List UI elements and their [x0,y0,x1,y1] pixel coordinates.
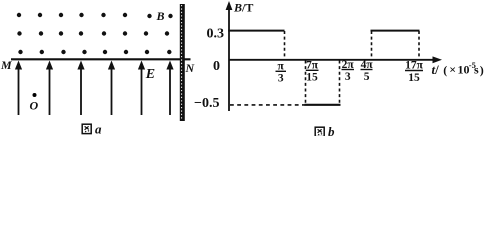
pulse 1 falling dashed edge [284,31,286,59]
tick label 4pi/5 [361,59,374,83]
pulse 3 right dashed edge [418,31,420,59]
svg-text:a: a [95,122,102,137]
svg-text:): ) [480,63,484,77]
svg-text:5: 5 [364,71,370,83]
svg-text:3: 3 [345,71,351,83]
dashed -0.5 level guide [230,104,305,106]
svg-text:×: × [449,63,456,77]
pulse 2 left dashed edge [305,61,307,104]
svg-text:M: M [0,58,12,72]
tick label 17pi/15 [405,60,424,85]
E-field arrow 2 [46,61,53,116]
E-field arrow 6 [166,61,173,116]
svg-text:s: s [474,63,479,77]
x-axis unit label t/(x10^-5 s) [432,60,484,77]
field dots row 1 [17,13,173,18]
E-field arrow 1 [15,61,22,116]
svg-text:(: ( [443,63,447,77]
svg-text:O: O [30,99,39,113]
svg-text:N: N [185,61,196,75]
svg-text:3: 3 [278,73,284,85]
x-axis t [229,56,442,63]
line MN [11,58,191,60]
svg-text:10: 10 [458,63,470,77]
E-field arrow 4 [108,61,115,116]
y-axis B/T [226,1,233,111]
tick label 2pi/3 [342,59,355,83]
svg-text:15: 15 [408,72,420,84]
pulse 3 left dashed edge [371,31,373,59]
svg-text:−0.5: −0.5 [194,96,219,111]
E-field arrow 5 [138,61,145,116]
E-field arrow 3 [77,61,84,116]
svg-text:B/T: B/T [233,1,253,15]
screen bar [180,4,185,121]
pulse 3 top at 0.3 [371,30,420,32]
tick label 7pi/15 [306,60,319,84]
field dots row 3 [18,50,171,54]
svg-text:15: 15 [306,72,318,84]
svg-text:E: E [145,67,155,82]
svg-text:0: 0 [213,59,220,74]
svg-text:B: B [156,9,165,23]
pulse 2 bottom at -0.5 [305,104,341,106]
caption 图 b [315,124,335,139]
caption 图 a [82,122,102,137]
svg-text:0.3: 0.3 [207,26,225,41]
point O dot [33,93,37,97]
svg-text:t/: t/ [432,62,440,77]
tick label pi/3 [278,61,285,85]
pulse 1 top at 0.3 [228,30,284,32]
svg-text:17π: 17π [405,60,424,72]
svg-text:b: b [328,124,335,136]
field dots row 2 [17,31,169,35]
pulse 2 right dashed edge [339,61,341,104]
